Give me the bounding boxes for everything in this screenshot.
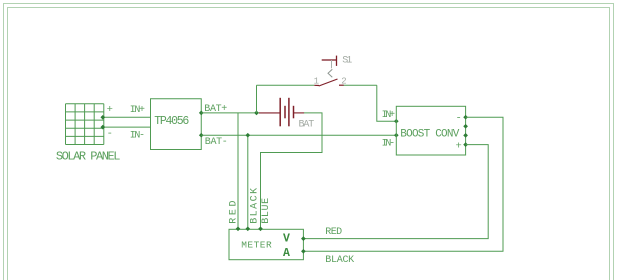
svg-text:+: + bbox=[456, 141, 462, 153]
wire boost + output to meter RED bbox=[303, 145, 488, 239]
junction dot meter out V bbox=[301, 236, 306, 241]
wire switch left segment bbox=[257, 84, 315, 86]
wire RED sense from BAT+ down to meter bbox=[237, 113, 239, 229]
svg-text:BLACK: BLACK bbox=[250, 188, 261, 224]
junction dot boost pin 2 bbox=[463, 124, 468, 129]
svg-text:-: - bbox=[107, 128, 113, 140]
junction dot boost IN- bbox=[394, 133, 399, 138]
svg-text:RED: RED bbox=[228, 201, 239, 224]
junction dot meter BLACK pin bbox=[245, 226, 250, 231]
svg-text:BAT: BAT bbox=[299, 119, 315, 130]
junction dot BLACK tee bbox=[245, 133, 250, 138]
svg-text:IN-: IN- bbox=[130, 130, 145, 141]
svg-text:1: 1 bbox=[314, 76, 319, 86]
wire BLACK sense from BAT- down to meter bbox=[247, 135, 249, 229]
battery plate long 1 bbox=[279, 98, 281, 127]
junction dot BAT+ pin bbox=[199, 111, 204, 116]
svg-text:BOOST CONV: BOOST CONV bbox=[400, 129, 459, 141]
junction dot battery+ node bbox=[254, 111, 259, 116]
wire panel+ to IN+ bbox=[102, 116, 151, 118]
junction dot panel+ bbox=[100, 115, 105, 120]
meter M1 box bbox=[229, 229, 303, 259]
battery left pin (red) bbox=[259, 112, 280, 114]
wire battery+ node up to switch bbox=[256, 85, 258, 113]
switch S1 actuator stem bbox=[331, 60, 333, 68]
svg-text:IN+: IN+ bbox=[130, 105, 145, 116]
wire BAT- net to boost IN- bbox=[201, 134, 396, 136]
svg-text:-: - bbox=[456, 112, 462, 124]
wire panel- to IN- bbox=[102, 126, 151, 128]
svg-text:S1: S1 bbox=[342, 56, 352, 67]
svg-text:TP4056: TP4056 bbox=[154, 115, 189, 128]
junction dot boost IN+ bbox=[394, 119, 399, 124]
switch S1 actuator end tick bbox=[336, 56, 338, 66]
svg-text:BAT-: BAT- bbox=[205, 137, 228, 148]
svg-text:2: 2 bbox=[341, 76, 346, 86]
svg-text:V: V bbox=[283, 232, 290, 245]
svg-text:METER: METER bbox=[241, 239, 272, 250]
junction dot panel- bbox=[100, 125, 105, 130]
wire down to boost IN+ bbox=[377, 85, 397, 121]
battery plate long 2 bbox=[288, 98, 290, 127]
boost converter U2 box bbox=[396, 106, 465, 155]
junction dot boost pin 3 bbox=[463, 133, 468, 138]
svg-text:IN+: IN+ bbox=[382, 110, 396, 121]
svg-text:SOLAR PANEL: SOLAR PANEL bbox=[56, 150, 121, 164]
svg-text:RED: RED bbox=[325, 227, 342, 238]
svg-text:BLACK: BLACK bbox=[325, 255, 354, 266]
wire battery- jog to meter BLUE bbox=[261, 113, 323, 229]
svg-text:A: A bbox=[283, 247, 290, 260]
battery right pin (red) bbox=[294, 112, 305, 114]
switch S1 blade bbox=[319, 79, 338, 86]
junction dot boost out - bbox=[463, 115, 468, 120]
switch S1 spring chevron bbox=[328, 69, 332, 77]
wire boost - output to meter BLACK bbox=[303, 117, 503, 251]
junction dot meter BLUE pin bbox=[258, 226, 263, 231]
wire BAT+ to battery bbox=[201, 112, 259, 114]
solar panel PV1 grid symbol bbox=[66, 104, 104, 145]
wire switch right segment bbox=[344, 84, 377, 86]
switch S1 actuator bar bbox=[322, 59, 337, 61]
battery plate short 2 bbox=[293, 106, 295, 119]
svg-text:+: + bbox=[107, 104, 113, 116]
switch S1 pin 1 stub bbox=[314, 84, 319, 86]
switch S1 pin 2 stub bbox=[339, 84, 344, 86]
battery plate short 1 bbox=[284, 106, 286, 119]
junction dot boost out + bbox=[463, 142, 468, 147]
svg-text:BLUE: BLUE bbox=[261, 198, 272, 224]
junction dot meter RED pin bbox=[236, 226, 241, 231]
charger module U1 box bbox=[151, 99, 202, 150]
junction dot BAT- pin bbox=[199, 133, 204, 138]
svg-text:IN-: IN- bbox=[382, 138, 396, 149]
junction dot meter out A bbox=[301, 249, 306, 254]
